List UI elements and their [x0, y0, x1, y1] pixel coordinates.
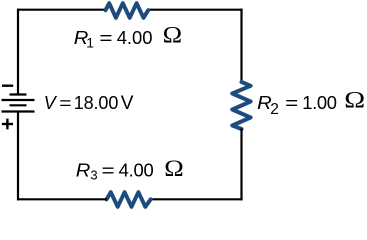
svg-text:=: =: [285, 93, 298, 114]
battery V: plate 4 (long, positive): [2, 110, 35, 112]
svg-text:3: 3: [90, 168, 97, 183]
resistor R2 (right zigzag): [232, 82, 250, 129]
wire: left, top segment (top corner to battery): [17, 9, 19, 95]
svg-text:V: V: [121, 93, 134, 114]
svg-text:18.00: 18.00: [74, 93, 119, 113]
svg-text:=: =: [102, 161, 115, 182]
battery V: plate 2 (long, positive): [2, 99, 35, 101]
wire: top, left segment: [17, 9, 106, 11]
wire: top, right segment: [148, 9, 243, 11]
svg-text:V: V: [44, 93, 58, 113]
wire: bottom, right segment: [150, 198, 243, 200]
battery V: plate 3 (short, negative): [10, 104, 27, 106]
svg-text:Ω: Ω: [163, 23, 182, 48]
svg-text:2: 2: [270, 101, 279, 118]
wire: bottom, left segment: [17, 198, 107, 200]
label V = 18.00 V: [44, 93, 134, 114]
label R2 = 1.00 Ω: [257, 87, 365, 118]
svg-text:Ω: Ω: [344, 87, 365, 113]
label R1 = 4.00 Ω: [74, 23, 182, 50]
resistor R1 (top zigzag): [106, 3, 149, 18]
battery plus sign: [2, 119, 13, 130]
svg-text:1.00: 1.00: [302, 92, 337, 113]
svg-text:=: =: [59, 93, 71, 113]
label R3 = 4.00 Ω: [76, 156, 184, 182]
svg-text:4.00: 4.00: [117, 27, 153, 48]
svg-text:R: R: [76, 161, 91, 182]
wire: right, top segment: [240, 9, 242, 83]
wire: left, bottom segment (battery to bottom corner): [17, 112, 19, 201]
battery minus sign: [2, 84, 13, 86]
battery V: plate 1 (short, negative): [10, 93, 27, 95]
svg-text:4.00: 4.00: [119, 160, 154, 181]
wire: right, bottom segment: [240, 129, 242, 201]
svg-text:=: =: [99, 28, 112, 49]
svg-text:Ω: Ω: [164, 156, 183, 181]
svg-text:1: 1: [86, 34, 94, 50]
resistor R3 (bottom zigzag): [107, 192, 151, 207]
